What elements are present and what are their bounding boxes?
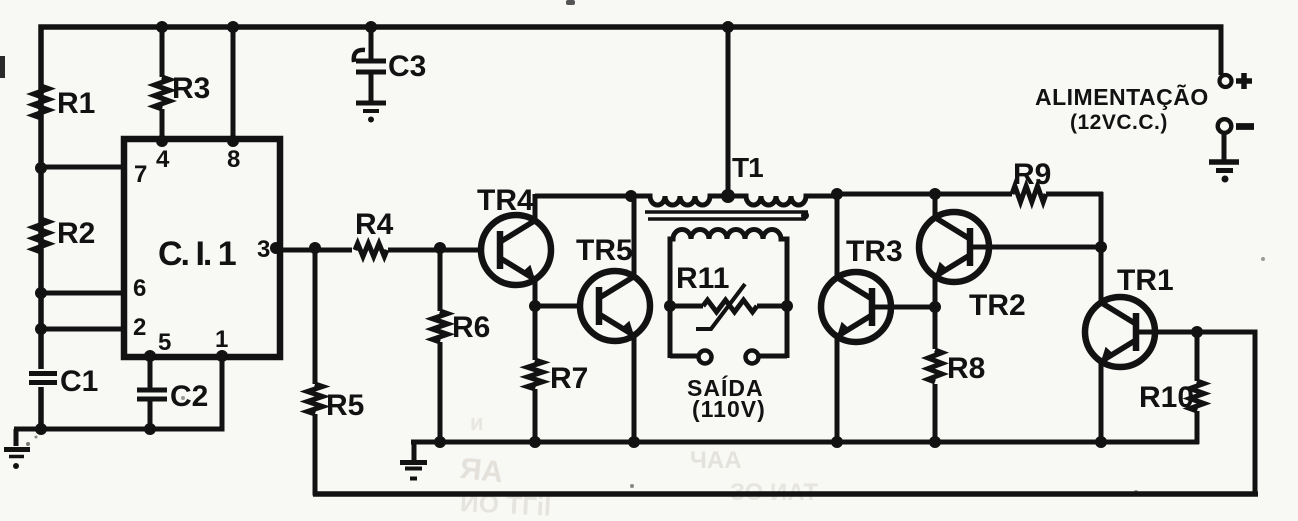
svg-text:C2: C2 [170, 380, 208, 413]
svg-text:R2: R2 [57, 217, 95, 250]
svg-text:R1: R1 [57, 87, 95, 120]
svg-text:R4: R4 [355, 208, 394, 241]
svg-text:3: 3 [257, 236, 270, 263]
svg-text:TR3: TR3 [846, 235, 903, 268]
svg-text:R9: R9 [1013, 158, 1051, 191]
svg-text:8: 8 [227, 146, 240, 173]
svg-text:C3: C3 [388, 50, 426, 83]
svg-text:ЧАА: ЧАА [690, 447, 742, 474]
svg-text:R3: R3 [172, 72, 210, 105]
svg-text:1: 1 [215, 326, 228, 353]
svg-text:ЯA: ЯA [458, 452, 504, 489]
svg-text:ALIMENTAÇÃO: ALIMENTAÇÃO [1035, 83, 1209, 110]
svg-text:5: 5 [158, 329, 171, 356]
svg-text:6: 6 [133, 275, 146, 302]
svg-text:T1: T1 [732, 152, 763, 183]
svg-text:R8: R8 [947, 352, 985, 385]
svg-text:2: 2 [133, 314, 146, 341]
svg-text:TR2: TR2 [969, 289, 1026, 322]
svg-text:C1: C1 [60, 365, 98, 398]
svg-text:TR1: TR1 [1117, 264, 1174, 297]
svg-text:4: 4 [156, 146, 170, 173]
svg-text:и: и [470, 410, 484, 435]
svg-text:R11: R11 [676, 262, 729, 295]
svg-text:R5: R5 [326, 389, 364, 422]
svg-text:(110V): (110V) [692, 396, 766, 422]
svg-text:TR4: TR4 [477, 184, 534, 217]
svg-text:7: 7 [134, 161, 147, 188]
svg-text:R6: R6 [452, 311, 490, 344]
svg-text:R7: R7 [550, 362, 588, 395]
svg-text:C. I. 1: C. I. 1 [158, 235, 236, 273]
svg-text:(12VC.C.): (12VC.C.) [1070, 111, 1168, 134]
svg-text:R10: R10 [1139, 381, 1194, 414]
svg-text:TR5: TR5 [576, 234, 633, 267]
